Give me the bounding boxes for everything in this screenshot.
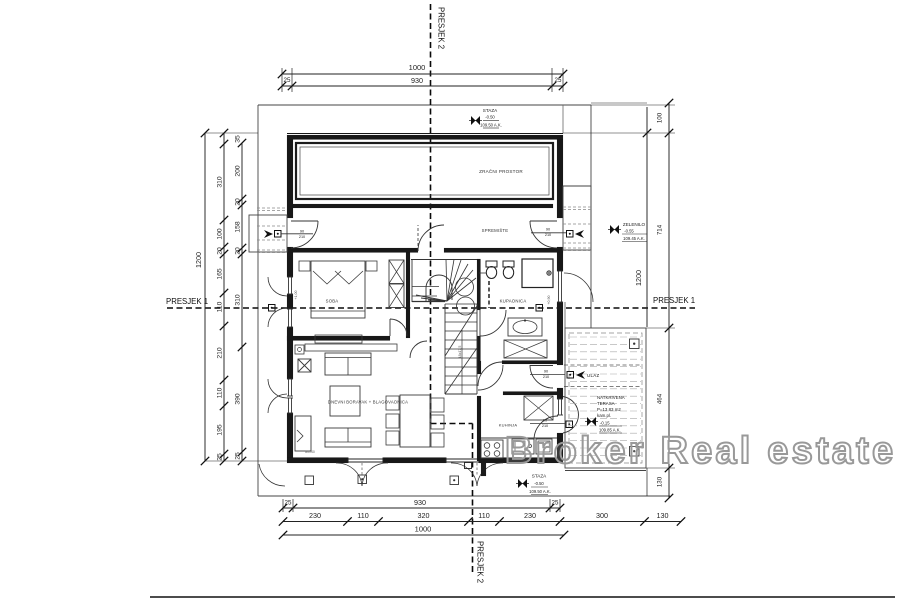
svg-text:110: 110 — [217, 387, 224, 398]
svg-text:TERASA: TERASA — [597, 401, 615, 406]
svg-text:195: 195 — [217, 424, 224, 436]
svg-text:+0,90: +0,90 — [547, 295, 551, 304]
svg-text:130: 130 — [657, 511, 669, 520]
svg-text:110: 110 — [478, 511, 489, 520]
svg-text:-0.55: -0.55 — [624, 229, 634, 234]
svg-text:PRESJEK 2: PRESJEK 2 — [476, 541, 485, 583]
svg-text:109.50 A.K.: 109.50 A.K. — [480, 123, 502, 128]
svg-text:-0.15: -0.15 — [600, 421, 610, 426]
svg-text:930: 930 — [414, 498, 426, 507]
svg-text:ULAZ: ULAZ — [587, 373, 599, 378]
svg-text:25: 25 — [235, 452, 242, 460]
svg-text:165: 165 — [217, 268, 224, 280]
svg-text:230: 230 — [524, 511, 536, 520]
svg-text:ZELENILO: ZELENILO — [623, 222, 646, 227]
svg-text:300: 300 — [596, 511, 608, 520]
svg-text:Broker Real estate: Broker Real estate — [505, 430, 896, 472]
svg-text:310: 310 — [235, 294, 242, 306]
svg-text:210: 210 — [217, 347, 224, 359]
svg-text:PRESJEK 1: PRESJEK 1 — [653, 296, 695, 305]
svg-text:SOBA: SOBA — [326, 299, 339, 304]
svg-text:390: 390 — [235, 393, 242, 405]
svg-text:320: 320 — [418, 511, 430, 520]
svg-text:100: 100 — [217, 228, 224, 240]
svg-text:310: 310 — [217, 176, 224, 188]
svg-text:210: 210 — [545, 233, 551, 237]
svg-text:1200: 1200 — [194, 252, 203, 268]
svg-text:109.45 A.K.: 109.45 A.K. — [623, 236, 645, 241]
svg-text:230: 230 — [309, 511, 321, 520]
svg-text:930: 930 — [411, 76, 423, 85]
svg-text:25: 25 — [552, 500, 559, 507]
svg-text:200: 200 — [235, 165, 242, 177]
svg-text:-0.50: -0.50 — [485, 115, 495, 120]
svg-text:20: 20 — [235, 247, 242, 255]
svg-text:-0.50: -0.50 — [534, 481, 544, 486]
svg-text:NATKRIVENA: NATKRIVENA — [597, 395, 625, 400]
svg-text:35: 35 — [235, 135, 242, 143]
svg-text:158: 158 — [235, 221, 242, 233]
svg-text:+1,00: +1,00 — [294, 290, 298, 299]
svg-text:KUPAONICA: KUPAONICA — [500, 299, 527, 304]
svg-text:ZRAČNI PROSTOR: ZRAČNI PROSTOR — [479, 168, 523, 174]
svg-text:DNEVNI BORAVAK + BLAGOVAONICA: DNEVNI BORAVAK + BLAGOVAONICA — [328, 400, 408, 405]
svg-text:90: 90 — [543, 419, 547, 423]
svg-text:714: 714 — [657, 224, 664, 235]
svg-text:210: 210 — [299, 235, 305, 239]
svg-text:18x17,5: 18x17,5 — [458, 346, 462, 359]
svg-text:25: 25 — [284, 77, 291, 84]
svg-text:90: 90 — [544, 370, 548, 374]
svg-text:110: 110 — [357, 511, 368, 520]
svg-text:90: 90 — [546, 228, 550, 232]
svg-text:210: 210 — [542, 424, 548, 428]
svg-text:1200: 1200 — [634, 270, 643, 286]
svg-text:STAZA: STAZA — [483, 108, 498, 113]
svg-text:STAZA: STAZA — [532, 474, 547, 479]
svg-text:90: 90 — [300, 230, 304, 234]
svg-text:1000: 1000 — [409, 63, 426, 72]
svg-text:P=13,83 m2: P=13,83 m2 — [597, 407, 621, 412]
svg-text:25: 25 — [285, 500, 292, 507]
svg-text:PRESJEK 2: PRESJEK 2 — [437, 7, 446, 49]
svg-text:25: 25 — [217, 453, 224, 461]
svg-text:1000: 1000 — [415, 525, 432, 534]
svg-text:KUHINJA: KUHINJA — [499, 423, 518, 428]
svg-text:110: 110 — [217, 301, 224, 312]
svg-text:464: 464 — [657, 393, 664, 404]
svg-text:109.50 A.K.: 109.50 A.K. — [529, 489, 551, 494]
svg-text:20: 20 — [217, 247, 224, 255]
svg-text:25: 25 — [555, 77, 562, 84]
svg-text:kam.pl.: kam.pl. — [597, 413, 611, 418]
svg-text:80x40: 80x40 — [305, 450, 315, 454]
svg-text:SPREMIŠTE: SPREMIŠTE — [482, 228, 509, 233]
svg-text:210: 210 — [543, 375, 549, 379]
svg-text:20: 20 — [235, 198, 242, 206]
svg-text:PRESJEK 1: PRESJEK 1 — [166, 297, 208, 306]
svg-text:100: 100 — [657, 112, 664, 123]
svg-text:130: 130 — [657, 476, 664, 487]
